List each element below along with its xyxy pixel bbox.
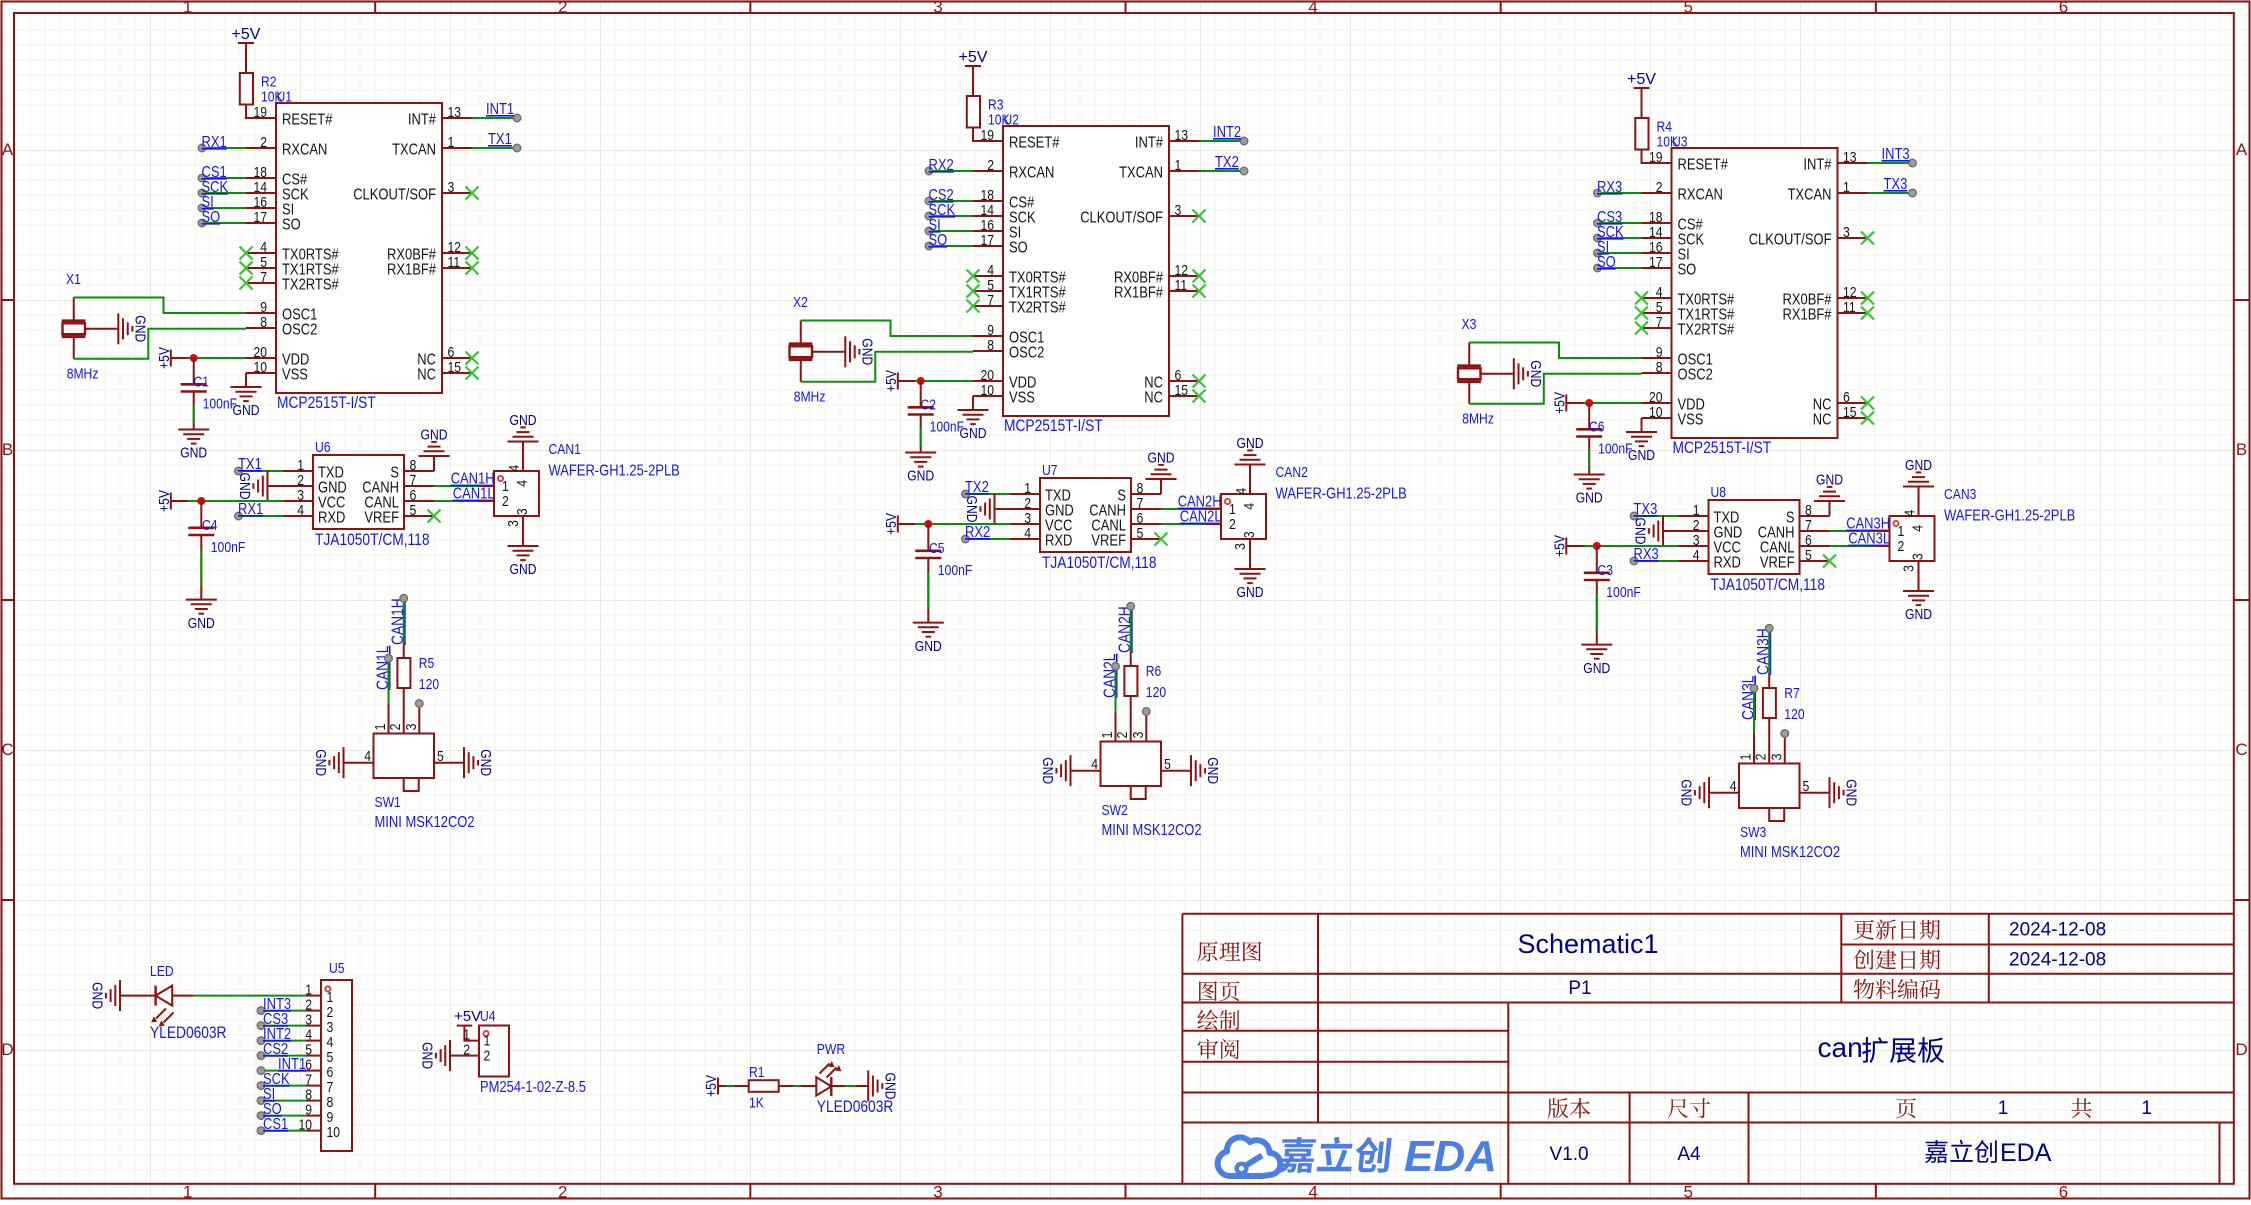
title company 嘉立创EDA (1925, 1140, 1997, 1163)
title label 尺寸 (1668, 1098, 1710, 1118)
svg-text:C2: C2 (921, 397, 937, 414)
svg-text:4: 4 (506, 465, 523, 472)
svg-text:3: 3 (933, 1183, 942, 1201)
no-connect X U3 pin at y=313 (1635, 307, 1648, 320)
svg-text:4: 4 (1308, 0, 1317, 17)
svg-text:GND: GND (1628, 447, 1655, 464)
wire X2 to OSC1 (801, 321, 973, 337)
wire net CAN1H from U6 CANH (434, 485, 479, 487)
connector U5 2.54mm header 10P (299, 960, 353, 1151)
svg-text:TXCAN: TXCAN (392, 142, 436, 159)
ground at U6 pin2 (236, 471, 268, 502)
svg-text:YLED0603R: YLED0603R (150, 1023, 227, 1042)
no-connect X U1 right pin at y=373 (466, 367, 479, 380)
svg-text:GND: GND (1905, 457, 1932, 474)
svg-text:TX1: TX1 (238, 456, 262, 473)
wire net CAN1H to R5 (400, 595, 408, 644)
svg-text:10: 10 (254, 359, 268, 376)
IC U7 TJA1050T/CM,118 CAN transceiver (1010, 462, 1161, 572)
svg-text:RX1BF#: RX1BF# (1783, 307, 1832, 324)
wire R1 to PWR LED (794, 1085, 817, 1087)
wire net TX2 to U7 TXD (962, 490, 1010, 498)
svg-text:11: 11 (1843, 299, 1856, 316)
svg-text:MINI MSK12CO2: MINI MSK12CO2 (1102, 822, 1202, 839)
svg-text:V1.0: V1.0 (1549, 1144, 1588, 1165)
logo text 嘉立创EDA (1278, 1137, 1392, 1173)
svg-text:4: 4 (364, 748, 371, 765)
svg-text:15: 15 (448, 359, 462, 376)
svg-text:GND: GND (1576, 490, 1603, 507)
svg-text:D: D (2235, 1040, 2247, 1059)
wire net RX2 to U2 (925, 167, 973, 175)
svg-text:15: 15 (1175, 382, 1189, 399)
svg-text:RX1: RX1 (238, 501, 263, 518)
svg-text:5: 5 (1164, 756, 1171, 773)
power +5V at VDD (156, 347, 173, 369)
svg-text:17: 17 (981, 232, 995, 249)
svg-text:C1: C1 (194, 374, 210, 391)
ground below CAN1 pin3 (508, 531, 539, 578)
ground below C6 (1574, 475, 1605, 507)
svg-text:PWR: PWR (817, 1041, 845, 1058)
ground below C1 (178, 430, 209, 462)
wire net TX1 to U6 TXD (235, 467, 283, 475)
svg-text:B: B (2, 440, 13, 459)
svg-text:SO: SO (202, 209, 221, 226)
svg-text:R6: R6 (1146, 663, 1162, 680)
wire TXCAN to net TX2 (1199, 167, 1248, 175)
no-connect X U3 right pin at y=313 (1861, 307, 1874, 320)
wire U6 S pin to ground (433, 456, 435, 471)
svg-text:2: 2 (463, 1042, 470, 1059)
svg-text:RESET#: RESET# (1009, 135, 1059, 152)
svg-text:U8: U8 (1711, 484, 1727, 501)
svg-text:INT1: INT1 (486, 101, 514, 118)
svg-text:120: 120 (1784, 706, 1804, 723)
no-connect X U3 right pin at y=298 (1861, 292, 1874, 305)
svg-text:1: 1 (2141, 1098, 2152, 1119)
resistor R6 120 termination (1124, 652, 1166, 712)
svg-text:MCP2515T-I/ST: MCP2515T-I/ST (277, 393, 376, 412)
svg-text:VREF: VREF (364, 510, 399, 527)
svg-text:3: 3 (1130, 732, 1147, 739)
wire INT# to net INT3 (1868, 159, 1917, 167)
svg-text:CS1: CS1 (263, 1116, 288, 1133)
svg-text:8: 8 (260, 314, 267, 331)
wire net SI to U1 (198, 204, 246, 212)
wire net RX2 to U7 RXD (962, 535, 1010, 543)
no-connect X U2 pin at y=276 (967, 270, 980, 283)
svg-text:GND: GND (89, 982, 106, 1009)
svg-text:GND: GND (907, 468, 934, 485)
wire VSS to ground (1641, 418, 1643, 432)
svg-text:YLED0603R: YLED0603R (817, 1097, 894, 1116)
svg-text:OSC2: OSC2 (1678, 367, 1713, 384)
junction node VCC U8 (1593, 542, 1601, 550)
no-connect X U1 pin at y=283 (240, 277, 253, 290)
ground at SW3 pin5 (1830, 777, 1860, 808)
svg-text:GND: GND (915, 638, 942, 655)
no-connect X U1 right pin at y=358 (466, 352, 479, 365)
svg-text:2024-12-08: 2024-12-08 (2009, 950, 2106, 971)
logo JLCEDA cloud (1218, 1137, 1281, 1176)
title label 共 (2071, 1098, 2091, 1118)
svg-text:11: 11 (448, 254, 461, 271)
no-connect X U2 pin at y=291 (967, 285, 980, 298)
svg-text:8: 8 (987, 337, 994, 354)
svg-text:2: 2 (1114, 732, 1131, 739)
svg-text:NC: NC (417, 367, 436, 384)
svg-text:+5V: +5V (883, 513, 900, 535)
svg-text:R5: R5 (419, 655, 435, 672)
power +5V at R1 (703, 1075, 720, 1097)
wire +5V to U7 VCC (898, 523, 1010, 525)
svg-text:GND: GND (859, 338, 876, 365)
svg-text:7: 7 (987, 292, 994, 309)
power +5V at VDD (1551, 392, 1568, 414)
svg-text:TXCAN: TXCAN (1788, 187, 1832, 204)
svg-text:GND: GND (1632, 518, 1649, 545)
wire U8 GND pin to ground (1663, 530, 1679, 532)
svg-text:3: 3 (505, 520, 522, 527)
ground at PWR LED (868, 1071, 898, 1102)
svg-text:+5V: +5V (1551, 535, 1568, 557)
wire net CAN1L from U6 CANL (434, 500, 479, 502)
svg-text:WAFER-GH1.25-2PLB: WAFER-GH1.25-2PLB (1276, 486, 1407, 503)
svg-text:GND: GND (1204, 757, 1221, 784)
wire net INT1 to U5 pin 6 (257, 1067, 306, 1075)
svg-text:VREF: VREF (1091, 533, 1126, 550)
wire net SO to U2 (925, 242, 973, 250)
svg-text:TX2RTS#: TX2RTS# (282, 277, 339, 294)
svg-text:19: 19 (1649, 149, 1663, 166)
title label 创建日期 (1854, 949, 1941, 969)
no-connect X U1 right pin at y=253 (466, 247, 479, 260)
connector CAN2 WAFER-GH1.25-2PLB (1206, 464, 1407, 554)
wire net RX3 to U8 RXD (1630, 557, 1678, 565)
svg-text:CLKOUT/SOF: CLKOUT/SOF (353, 187, 436, 204)
wire VSS to ground (245, 373, 247, 387)
no-connect X U2 pin at y=306 (967, 300, 980, 313)
IC U8 TJA1050T/CM,118 CAN transceiver (1679, 484, 1830, 594)
svg-text:GND: GND (1237, 435, 1264, 452)
svg-text:A: A (2236, 140, 2248, 159)
svg-text:RX1BF#: RX1BF# (387, 262, 436, 279)
wire net TX3 to U8 TXD (1630, 512, 1678, 520)
no-connect X U3 pin at y=328 (1635, 322, 1648, 335)
svg-text:GND: GND (510, 561, 537, 578)
svg-text:TJA1050T/CM,118: TJA1050T/CM,118 (315, 530, 430, 549)
svg-text:U6: U6 (315, 439, 331, 456)
no-connect X U3 right pin at y=403 (1861, 397, 1874, 410)
svg-text:MCP2515T-I/ST: MCP2515T-I/ST (1673, 438, 1772, 457)
wire X1 to OSC1 (74, 298, 246, 314)
ground for X3 case (1514, 358, 1544, 389)
IC U2 MCP2515T-I/ST CAN controller (973, 112, 1199, 436)
svg-text:3: 3 (1768, 754, 1785, 761)
svg-text:6: 6 (2059, 0, 2068, 17)
svg-text:TX1: TX1 (488, 131, 512, 148)
wire CAN1 pin4 to ground (522, 442, 524, 457)
svg-text:R7: R7 (1784, 685, 1800, 702)
svg-text:2: 2 (1898, 538, 1905, 555)
svg-text:3: 3 (403, 724, 420, 731)
svg-text:SW2: SW2 (1102, 802, 1128, 819)
no-connect X U2 right pin at y=291 (1193, 285, 1206, 298)
no-connect X U2 right pin at y=216 (1193, 210, 1206, 223)
title label 更新日期 (1854, 919, 1940, 939)
svg-text:TX2RTS#: TX2RTS# (1678, 322, 1735, 339)
switch SW3 MINI MSK12CO2 (1709, 734, 1840, 862)
svg-text:GND: GND (312, 749, 329, 776)
svg-text:INT2: INT2 (1213, 124, 1241, 141)
svg-text:C5: C5 (929, 540, 945, 557)
IC U1 MCP2515T-I/ST CAN controller (246, 89, 472, 413)
no-connect X U1 pin at y=268 (240, 262, 253, 275)
svg-text:+5V: +5V (156, 347, 173, 369)
power +5V at U4 (454, 1008, 481, 1026)
title label 物料编码 (1854, 979, 1941, 999)
svg-text:5: 5 (437, 748, 444, 765)
svg-text:GND: GND (477, 749, 494, 776)
ground for X2 case (845, 336, 875, 367)
svg-text:GND: GND (881, 1073, 898, 1100)
svg-text:4: 4 (1308, 1183, 1317, 1201)
wire net CAN2H from U7 CANH (1161, 508, 1206, 510)
wire net CS1 to U1 (198, 174, 246, 182)
wire LED to U5 pin1 (172, 995, 306, 997)
svg-text:+5V: +5V (156, 490, 173, 512)
svg-text:10: 10 (1649, 404, 1663, 421)
wire +5V to R4 (1641, 88, 1643, 118)
svg-text:INT#: INT# (1803, 157, 1831, 174)
svg-text:C: C (2235, 740, 2247, 759)
svg-text:RX2: RX2 (965, 524, 990, 541)
svg-text:WAFER-GH1.25-2PLB: WAFER-GH1.25-2PLB (549, 463, 680, 480)
svg-text:7: 7 (260, 269, 267, 286)
svg-text:4: 4 (297, 502, 304, 519)
svg-text:U1: U1 (277, 89, 293, 106)
no-connect X U1 pin at y=253 (240, 247, 253, 260)
svg-text:+5V: +5V (454, 1008, 481, 1025)
svg-text:R1: R1 (749, 1064, 765, 1081)
wire CAN2 pin4 to ground (1249, 465, 1251, 480)
wire net CAN3L to SW3 pin1 (1750, 685, 1758, 734)
svg-text:7: 7 (1656, 314, 1663, 331)
svg-text:RX1: RX1 (202, 134, 227, 151)
wire X3 to OSC1 (1469, 343, 1641, 359)
svg-text:X3: X3 (1462, 316, 1477, 333)
svg-text:+5V: +5V (232, 26, 261, 43)
svg-text:TJA1050T/CM,118: TJA1050T/CM,118 (1042, 553, 1157, 572)
LED D? YLED0603R status (150, 963, 227, 1042)
wire net INT2 to U5 pin 4 (257, 1037, 306, 1045)
svg-text:RX3: RX3 (1634, 546, 1659, 563)
svg-text:13: 13 (1175, 127, 1189, 144)
wire net CAN3H to R7 (1765, 625, 1773, 674)
svg-text:GND: GND (963, 496, 980, 523)
wire net SI to U5 pin 8 (257, 1097, 306, 1105)
svg-text:3: 3 (1843, 224, 1850, 241)
svg-text:+5V: +5V (703, 1075, 720, 1097)
svg-text:8MHz: 8MHz (794, 389, 826, 406)
svg-text:SO: SO (1678, 262, 1697, 279)
wire net SI to U3 (1594, 249, 1642, 257)
junction node VCC U6 (197, 497, 205, 505)
svg-text:4: 4 (1024, 525, 1031, 542)
svg-text:SO: SO (1009, 240, 1028, 257)
svg-text:LED: LED (150, 963, 174, 980)
svg-text:1: 1 (183, 1183, 192, 1201)
svg-text:GND: GND (421, 427, 448, 444)
wire INT# to net INT1 (472, 114, 521, 122)
ground at SW2 pin5 (1191, 755, 1221, 786)
svg-text:GND: GND (960, 425, 987, 442)
ground below CAN2 pin3 (1235, 554, 1266, 601)
svg-text:TX3: TX3 (1884, 176, 1908, 193)
svg-text:5: 5 (1684, 0, 1693, 17)
power +5V above R4 (1457, 71, 2075, 677)
ground below CAN3 pin3 (1903, 576, 1934, 623)
wire net CS3 to U5 pin 3 (257, 1022, 306, 1030)
ground at SW2 pin4 (1039, 755, 1071, 786)
ground at SW1 pin5 (464, 747, 494, 778)
wire R4 to RESET# (1642, 150, 1672, 164)
wire net RX1 to U1 (198, 144, 246, 152)
ground at U6 S pin (419, 427, 450, 457)
svg-text:VSS: VSS (1009, 390, 1035, 407)
svg-text:WAFER-GH1.25-2PLB: WAFER-GH1.25-2PLB (1944, 508, 2075, 525)
no-connect X U3 right pin at y=418 (1861, 412, 1874, 425)
svg-text:GND: GND (1678, 779, 1695, 806)
svg-text:4: 4 (1241, 503, 1258, 510)
wire net CAN1L to SW1 pin1 (385, 655, 393, 704)
svg-text:1: 1 (1843, 179, 1850, 196)
svg-text:13: 13 (1843, 149, 1857, 166)
wire net SCK to U2 (925, 212, 973, 220)
svg-text:100nF: 100nF (1606, 584, 1641, 601)
svg-text:A: A (2, 140, 14, 159)
wire net INT3 to U5 pin 2 (257, 1007, 306, 1015)
resistor R1 1K (734, 1064, 794, 1112)
wire net SI to U2 (925, 227, 973, 235)
svg-text:13: 13 (448, 104, 462, 121)
LED PWR YLED0603R (816, 1041, 893, 1116)
no-connect X U3 right pin at y=238 (1861, 232, 1874, 245)
wire net RX3 to U3 (1594, 189, 1642, 197)
ground above CAN2 pin4 (1235, 435, 1266, 465)
ground at SW1 pin4 (312, 747, 344, 778)
resistor R4 10K pull-up (1635, 118, 1678, 151)
svg-text:VREF: VREF (1760, 555, 1795, 572)
wire X3 to OSC2 (1469, 374, 1641, 404)
svg-text:SW3: SW3 (1740, 824, 1766, 841)
svg-text:5: 5 (1137, 525, 1144, 542)
svg-text:TX2: TX2 (1215, 154, 1239, 171)
svg-text:3: 3 (514, 508, 531, 515)
svg-text:C4: C4 (202, 517, 218, 534)
svg-text:U3: U3 (1672, 134, 1688, 151)
svg-text:GND: GND (233, 402, 260, 419)
svg-text:1: 1 (183, 0, 192, 17)
svg-text:GND: GND (132, 315, 149, 342)
svg-text:can: can (1818, 1032, 1863, 1063)
svg-text:TX2RTS#: TX2RTS# (1009, 300, 1066, 317)
title label 审阅 (1198, 1039, 1240, 1059)
wire U7 GND pin to ground (995, 508, 1011, 510)
svg-text:C6: C6 (1589, 419, 1605, 436)
svg-text:4: 4 (1091, 756, 1098, 773)
svg-text:CAN3: CAN3 (1944, 486, 1976, 503)
svg-text:TX2: TX2 (965, 479, 989, 496)
wire +5V to R3 (972, 66, 974, 96)
ground below C2 (905, 453, 936, 485)
svg-text:120: 120 (419, 676, 439, 693)
svg-text:MINI MSK12CO2: MINI MSK12CO2 (375, 814, 475, 831)
power +5V at U7 VCC (883, 513, 900, 535)
ground above CAN1 pin4 (508, 412, 539, 442)
connector CAN1 WAFER-GH1.25-2PLB (479, 441, 680, 531)
grey dot SW2 pin3 unconnected (1143, 708, 1151, 716)
switch SW2 MINI MSK12CO2 (1071, 712, 1202, 840)
svg-text:5: 5 (1684, 1183, 1693, 1201)
svg-text:EDA: EDA (2000, 1139, 2052, 1167)
svg-text:A4: A4 (1677, 1144, 1701, 1165)
ground at SW3 pin4 (1678, 777, 1710, 808)
wire net CS2 to U2 (925, 197, 973, 205)
ground at U3 VSS (1626, 432, 1657, 464)
svg-text:2: 2 (987, 157, 994, 174)
svg-text:RX1BF#: RX1BF# (1114, 285, 1163, 302)
svg-text:NC: NC (1813, 412, 1832, 429)
svg-text:CAN2: CAN2 (1276, 464, 1308, 481)
svg-text:OSC2: OSC2 (1009, 345, 1044, 362)
no-connect X U3 pin at y=298 (1635, 292, 1648, 305)
wire ground to LED (120, 995, 155, 997)
svg-text:INT#: INT# (408, 112, 436, 129)
title label 版本 (1548, 1098, 1590, 1118)
connector CAN3 WAFER-GH1.25-2PLB (1875, 486, 2076, 576)
wire +5V to U8 VCC (1566, 545, 1678, 547)
wire net CAN2H to R6 (1127, 603, 1135, 652)
wire U6 GND pin to ground (268, 485, 284, 487)
svg-text:SO: SO (1597, 254, 1616, 271)
capacitor C1 100nF (181, 358, 237, 430)
capacitor C4 100nF (188, 501, 245, 600)
svg-text:NC: NC (1144, 390, 1163, 407)
svg-text:2: 2 (558, 0, 567, 17)
svg-text:U5: U5 (329, 960, 345, 977)
svg-text:SW1: SW1 (375, 794, 401, 811)
wire +5V to VDD (1566, 402, 1641, 404)
svg-text:1: 1 (1998, 1098, 2009, 1119)
svg-text:4: 4 (1693, 547, 1700, 564)
svg-text:RESET#: RESET# (282, 112, 332, 129)
capacitor C2 100nF (908, 381, 964, 453)
wire U4 pin2 to ground (450, 1055, 464, 1057)
svg-text:+5V: +5V (1627, 71, 1656, 88)
svg-text:GND: GND (419, 1042, 436, 1069)
wire net SO to U1 (198, 219, 246, 227)
svg-text:+5V: +5V (959, 49, 988, 66)
power +5V above R3 (789, 49, 1407, 655)
svg-text:2: 2 (1656, 179, 1663, 196)
svg-text:4: 4 (1902, 510, 1919, 517)
svg-text:100nF: 100nF (211, 539, 246, 556)
junction node VDD (190, 354, 198, 362)
svg-text:U2: U2 (1004, 112, 1020, 129)
wire R2 to RESET# (246, 105, 276, 119)
